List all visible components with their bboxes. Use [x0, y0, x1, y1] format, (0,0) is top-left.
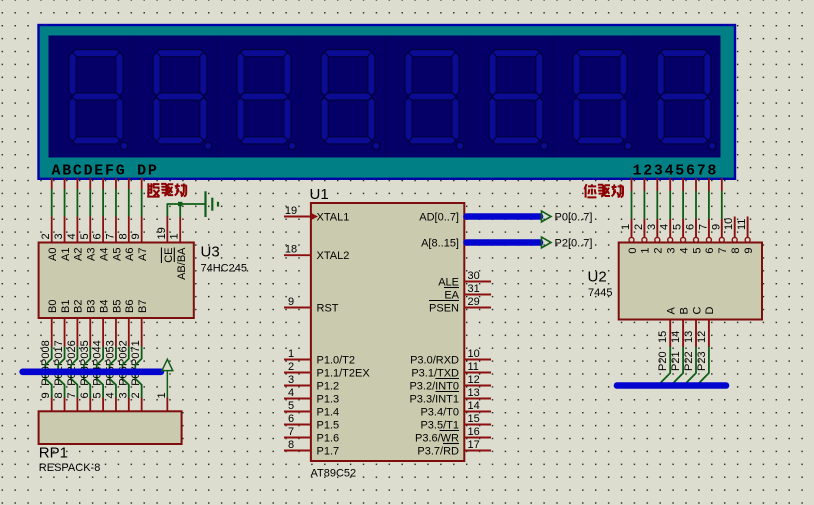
svg-text:5: 5 — [288, 400, 294, 412]
svg-text:C: C — [691, 307, 703, 315]
svg-text:P3.7/RD: P3.7/RD — [417, 446, 459, 458]
display digit pin 6 stub — [695, 178, 697, 191]
display digit pin 8 stub — [721, 178, 723, 191]
svg-text:A5: A5 — [111, 248, 123, 261]
svg-text:P017: P017 — [53, 340, 65, 366]
wire display E to U3 A4 — [102, 189, 104, 217]
svg-text:P3.2/INT0: P3.2/INT0 — [409, 381, 459, 393]
bus wire P0[0..7] from U1 — [467, 213, 541, 220]
U3 pin 3 stub — [64, 217, 66, 243]
svg-text:B1: B1 — [60, 300, 72, 313]
display digit pin 3 stub — [656, 178, 658, 191]
svg-text:A1: A1 — [60, 248, 72, 261]
svg-text:P3.1/TXD: P3.1/TXD — [411, 368, 459, 380]
svg-text:2: 2 — [633, 224, 645, 230]
wire display digit 4 to U2 out 3 — [669, 191, 671, 219]
svg-text:P1.4: P1.4 — [317, 407, 340, 419]
svg-text:14: 14 — [670, 331, 682, 343]
svg-text:7: 7 — [697, 224, 709, 230]
svg-text:9: 9 — [40, 392, 52, 398]
U1 pin 2 line (P1.1/T2EX) — [284, 372, 311, 374]
svg-text:6: 6 — [92, 233, 104, 239]
wire display D to U3 A7 — [141, 189, 143, 217]
svg-text:P3.6/WR: P3.6/WR — [415, 433, 459, 445]
U2 pin 9 stub with bubble — [721, 219, 723, 237]
display digit 8 — [657, 50, 716, 150]
svg-text:6: 6 — [685, 224, 697, 230]
buffer U3 74HC245 body — [39, 243, 194, 319]
wire B5 to bus and to RP1 (jog) — [110, 347, 116, 399]
junction node at AB/BA tap — [178, 202, 182, 206]
svg-text:P0[0..7]: P0[0..7] — [555, 212, 593, 224]
svg-text:1: 1 — [620, 224, 632, 230]
svg-text:P1.7: P1.7 — [317, 446, 340, 458]
svg-text:1: 1 — [169, 233, 181, 239]
svg-text:P3.5/T1: P3.5/T1 — [420, 420, 459, 432]
U3 pin 9 stub — [141, 217, 143, 243]
wire display digit 6 to U2 out 5 — [695, 191, 697, 219]
wire CE to ground (horizontal) — [167, 203, 206, 205]
svg-text:AD[0..7]: AD[0..7] — [419, 212, 459, 224]
RP1 pin 9 stub — [51, 398, 53, 412]
svg-text:1: 1 — [288, 348, 294, 360]
svg-text:3: 3 — [666, 248, 678, 254]
wire B4 to bus and to RP1 (jog) — [97, 347, 103, 399]
svg-text:4: 4 — [678, 248, 690, 254]
U3 pin 5 bottom stub B5 — [115, 318, 117, 347]
U3 pin 1 bottom stub B1 — [64, 318, 66, 347]
svg-text:3: 3 — [646, 224, 658, 230]
U1 pin 13 line (P3.3/INT1) — [464, 398, 491, 400]
U3 pin 3 bottom stub B3 — [89, 318, 91, 347]
svg-text:P026: P026 — [66, 340, 78, 366]
svg-text:P1.1/T2EX: P1.1/T2EX — [317, 368, 371, 380]
svg-text:A6: A6 — [124, 248, 136, 261]
U1 pin 7 line (P1.6) — [284, 437, 311, 439]
overline for WR — [440, 430, 460, 432]
display digit 6 — [489, 50, 548, 150]
XTAL1 clock arrow — [312, 213, 319, 220]
svg-text:PSEN: PSEN — [429, 303, 459, 315]
wire U3 AB/BA up — [179, 204, 181, 217]
svg-text:A4: A4 — [98, 248, 110, 261]
svg-text:8: 8 — [117, 233, 129, 239]
svg-text:5: 5 — [92, 392, 104, 398]
display pin D stub — [141, 178, 143, 189]
U2 pin 14 bottom stub — [682, 320, 684, 347]
svg-text:P1.3: P1.3 — [317, 394, 340, 406]
wire U2 C to bus P22 — [684, 347, 696, 386]
svg-text:4: 4 — [288, 387, 294, 399]
svg-text:P20: P20 — [657, 351, 669, 371]
wire display digit 5 to U2 out 4 — [682, 191, 684, 219]
svg-text:ALE: ALE — [438, 277, 459, 289]
svg-text:30: 30 — [468, 270, 480, 282]
svg-text:31: 31 — [468, 283, 480, 295]
RP1 pin 1 stub — [166, 398, 168, 412]
U3 pin 6 stub — [102, 217, 104, 243]
RP1 pin 2 stub — [141, 398, 143, 412]
U1 pin 5 line (P1.4) — [284, 411, 311, 413]
display digit 2 — [153, 50, 212, 150]
svg-text:U1: U1 — [310, 186, 329, 203]
display cell divider 3 — [300, 36, 302, 158]
U1 pin 15 line (P3.5/T1) — [464, 424, 491, 426]
svg-text:P1.5: P1.5 — [317, 420, 340, 432]
overline for RD — [443, 443, 459, 445]
display digit pin 4 stub — [669, 178, 671, 191]
svg-text:7: 7 — [288, 426, 294, 438]
wire display C to U3 A2 — [76, 189, 78, 217]
svg-text:15: 15 — [657, 331, 669, 343]
svg-text:B5: B5 — [111, 300, 123, 313]
U3 pin 19 stub (CE) — [166, 217, 168, 243]
U2 pin 5 stub with bubble — [682, 219, 684, 237]
wire display A to U3 A0 — [51, 189, 53, 217]
bus arrowhead P2[0..7] — [542, 237, 552, 248]
wire U3 CE up — [166, 204, 168, 217]
wire display digit 1 to U2 out 0 — [631, 191, 633, 219]
svg-text:B6: B6 — [124, 300, 136, 313]
svg-text:9: 9 — [288, 296, 294, 308]
svg-text:5: 5 — [79, 233, 91, 239]
svg-text:AT89C52: AT89C52 — [311, 468, 357, 480]
label 段驱动 (segment drive), hand-drawn glyphs — [147, 183, 159, 197]
U1 pin 16 line (P3.6/WR) — [464, 437, 491, 439]
overline for INT1 — [436, 391, 460, 393]
U3 pin 4 bottom stub B4 — [102, 318, 104, 347]
display pin A stub — [51, 178, 53, 189]
display digit 5 — [405, 50, 464, 150]
U2 pin 13 bottom stub — [695, 320, 697, 347]
svg-text:B4: B4 — [98, 300, 110, 313]
svg-text:U3: U3 — [201, 243, 220, 260]
svg-text:A[8..15]: A[8..15] — [421, 238, 459, 250]
svg-text:4: 4 — [104, 392, 116, 398]
svg-text:P053: P053 — [104, 340, 116, 366]
display pin F stub — [115, 178, 117, 189]
U2 pin 11 stub with bubble — [747, 217, 749, 238]
U1 pin 6 line (P1.5) — [284, 424, 311, 426]
wire B7 to bus and to RP1 (jog) — [135, 347, 141, 399]
display digit 3 — [237, 50, 296, 150]
svg-text:7: 7 — [66, 392, 78, 398]
svg-text:P1.0/T2: P1.0/T2 — [317, 355, 356, 367]
svg-text:RST: RST — [317, 303, 339, 315]
wire B3 to bus and to RP1 (jog) — [84, 347, 90, 399]
svg-text:3: 3 — [288, 374, 294, 386]
svg-text:7: 7 — [717, 248, 729, 254]
svg-text:2: 2 — [130, 392, 142, 398]
svg-text:P3.4/T0: P3.4/T0 — [420, 407, 459, 419]
svg-text:19: 19 — [285, 205, 297, 217]
display DS1 7SEG-MPX8 body — [39, 25, 736, 179]
wire B0 to bus and to RP1 (jog) — [45, 347, 51, 399]
U1 pin 14 line (P3.4/T0) — [464, 411, 491, 413]
bus right horizontal — [617, 382, 726, 389]
U2 pin 15 bottom stub — [669, 320, 671, 347]
display cell divider 5 — [468, 36, 470, 158]
svg-text:P21: P21 — [670, 351, 682, 371]
display pin E stub — [102, 178, 104, 189]
RP1 pin 3 stub — [128, 398, 130, 412]
svg-text:2: 2 — [288, 361, 294, 373]
svg-text:11: 11 — [736, 219, 748, 230]
svg-text:9: 9 — [710, 224, 722, 230]
U2 pin 1 stub with bubble — [631, 219, 633, 237]
svg-text:1: 1 — [156, 392, 168, 398]
svg-text:P23: P23 — [696, 351, 708, 371]
U2 pin 3 stub with bubble — [656, 219, 658, 237]
display pin C stub — [76, 178, 78, 189]
wire display digit 3 to U2 out 2 — [656, 191, 658, 219]
svg-text:P071: P071 — [130, 340, 142, 366]
svg-text:8: 8 — [53, 392, 65, 398]
svg-text:U2: U2 — [588, 269, 607, 286]
display digit pin 7 stub — [708, 178, 710, 191]
svg-text:12: 12 — [468, 374, 480, 386]
svg-text:P062: P062 — [117, 340, 129, 366]
svg-text:13: 13 — [468, 387, 480, 399]
overline for EA — [444, 287, 459, 289]
U1 pin 3 line (P1.2) — [284, 385, 311, 387]
overline for PSEN — [429, 300, 459, 302]
svg-text:P035: P035 — [79, 340, 91, 366]
U2 pin 12 bottom stub — [708, 320, 710, 347]
svg-text:B2: B2 — [73, 300, 85, 313]
RP1 pin 6 stub — [89, 398, 91, 412]
display digit 7 — [573, 50, 632, 150]
wire display digit 7 to U2 out 6 — [708, 191, 710, 219]
svg-text:6: 6 — [704, 248, 716, 254]
svg-text:P3.0/RXD: P3.0/RXD — [410, 355, 459, 367]
svg-text:P1.2: P1.2 — [317, 381, 340, 393]
svg-text:9: 9 — [130, 233, 142, 239]
wire display digit 2 to U2 out 1 — [643, 191, 645, 219]
U2 pin 6 stub with bubble — [695, 219, 697, 237]
wire display G to U3 A6 — [128, 189, 130, 217]
decoder U2 7445 body — [619, 243, 762, 320]
svg-text:14: 14 — [468, 400, 480, 412]
bus wire P2[0..7] from U1 — [467, 239, 541, 246]
mcu U1 AT89C52 body — [311, 203, 464, 461]
svg-text:A0: A0 — [47, 248, 59, 261]
svg-text:RP1: RP1 — [39, 445, 68, 462]
U1 pin 8 line (P1.7) — [284, 450, 311, 452]
display cell divider 1 — [132, 36, 134, 158]
wire display digit 8 to U2 out 7 — [721, 191, 723, 219]
label 位驱动 (digit drive), hand-drawn glyphs — [584, 184, 596, 197]
svg-text:2: 2 — [40, 233, 52, 239]
U1 pin 30 line (ALE) — [464, 281, 491, 283]
svg-text:P008: P008 — [40, 340, 52, 366]
U1 pin 19 line (XTAL1) — [284, 216, 311, 218]
U1 pin 17 line (P3.7/RD) — [464, 450, 491, 452]
display digit pin 2 stub — [643, 178, 645, 191]
svg-text:19: 19 — [156, 227, 168, 239]
wire B6 to bus and to RP1 (jog) — [122, 347, 128, 399]
svg-text:B: B — [678, 307, 690, 314]
U3 pin 1 stub (AB/BA) — [179, 217, 181, 243]
svg-text:15: 15 — [468, 413, 480, 425]
svg-text:XTAL1: XTAL1 — [317, 212, 350, 224]
svg-text:4: 4 — [659, 224, 671, 230]
ground symbol — [206, 191, 219, 217]
display cell divider 2 — [216, 36, 218, 158]
svg-text:CE: CE — [163, 248, 175, 263]
svg-text:ABCDEFG DP: ABCDEFG DP — [52, 162, 159, 179]
svg-text:8: 8 — [730, 248, 742, 254]
svg-text:P3.3/INT1: P3.3/INT1 — [409, 394, 459, 406]
U3 pin 6 bottom stub B6 — [128, 318, 130, 347]
svg-text:2: 2 — [653, 248, 665, 254]
svg-text:6: 6 — [288, 413, 294, 425]
U3 pin 2 stub — [51, 217, 53, 243]
resistor pack RP1 body — [39, 411, 182, 444]
svg-text:5: 5 — [672, 224, 684, 230]
svg-text:A3: A3 — [86, 248, 98, 261]
wire B1 to bus and to RP1 (jog) — [58, 347, 64, 399]
svg-text:16: 16 — [468, 426, 480, 438]
svg-text:4: 4 — [66, 233, 78, 239]
svg-text:6: 6 — [79, 392, 91, 398]
svg-text:B3: B3 — [86, 300, 98, 313]
U1 pin 9 line (RST) — [284, 307, 311, 309]
svg-text:EA: EA — [444, 290, 459, 302]
svg-text:3: 3 — [117, 392, 129, 398]
U1 pin 12 line (P3.2/INT0) — [464, 385, 491, 387]
U1 pin 10 line (P3.0/RXD) — [464, 359, 491, 361]
bus arrowhead P0[0..7] — [542, 211, 552, 222]
U2 pin 4 stub with bubble — [669, 219, 671, 237]
svg-text:B0: B0 — [47, 300, 59, 313]
svg-text:5: 5 — [691, 248, 703, 254]
svg-text:7: 7 — [104, 233, 116, 239]
svg-text:12345678: 12345678 — [633, 162, 719, 179]
U1 pin 4 line (P1.3) — [284, 398, 311, 400]
U2 pin 2 stub with bubble — [643, 219, 645, 237]
svg-text:3: 3 — [53, 233, 65, 239]
svg-text:A: A — [666, 307, 678, 315]
display digit 1 — [69, 50, 128, 150]
svg-text:10: 10 — [468, 348, 480, 360]
svg-text:0: 0 — [627, 248, 639, 254]
RP1 pin 7 stub — [76, 398, 78, 412]
RP1 pin 8 stub — [64, 398, 66, 412]
wire display B to U3 A1 — [64, 189, 66, 217]
wire display D to U3 A3 — [89, 189, 91, 217]
svg-text:7445: 7445 — [588, 287, 612, 299]
svg-text:29: 29 — [468, 296, 480, 308]
U2 pin 7 stub with bubble — [708, 219, 710, 237]
U3 pin 4 stub — [76, 217, 78, 243]
wire U2 A to bus P20 — [658, 347, 670, 386]
U2 pin 10 stub with bubble — [734, 217, 736, 238]
wire U2 D to bus P23 — [697, 347, 709, 386]
U3 pin 2 bottom stub B2 — [76, 318, 78, 347]
wire B2 to bus and to RP1 (jog) — [71, 347, 77, 399]
U3 pin 7 stub — [115, 217, 117, 243]
display digit pin 1 stub — [631, 178, 633, 191]
svg-text:P22: P22 — [683, 351, 695, 371]
svg-text:18: 18 — [285, 244, 297, 256]
U1 pin 1 line (P1.0/T2) — [284, 359, 311, 361]
wire display F to U3 A5 — [115, 189, 117, 217]
svg-text:1: 1 — [640, 248, 652, 254]
svg-text:9: 9 — [743, 248, 755, 254]
U3 pin 0 bottom stub B0 — [51, 318, 53, 347]
svg-text:P1.6: P1.6 — [317, 433, 340, 445]
power symbol (vcc arrow) for RP1 pin 1 — [162, 359, 173, 398]
svg-text:B7: B7 — [137, 300, 149, 313]
display pin D stub — [89, 178, 91, 189]
U1 pin 18 line (XTAL2) — [284, 254, 311, 256]
svg-text:RESPACK-8: RESPACK-8 — [39, 462, 101, 474]
U3 pin 5 stub — [89, 217, 91, 243]
display cell divider 6 — [552, 36, 554, 158]
RP1 pin 4 stub — [115, 398, 117, 412]
display pin B stub — [64, 178, 66, 189]
svg-text:A7: A7 — [137, 248, 149, 261]
svg-text:XTAL2: XTAL2 — [317, 250, 350, 262]
svg-text:11: 11 — [468, 361, 479, 373]
svg-text:74HC245: 74HC245 — [201, 263, 247, 275]
display digit pin 5 stub — [682, 178, 684, 191]
U1 pin 31 line (EA) — [464, 294, 491, 296]
svg-text:A2: A2 — [73, 248, 85, 261]
U3 pin 7 bottom stub B7 — [141, 318, 143, 347]
svg-text:AB/BA: AB/BA — [176, 247, 188, 280]
display cell divider 4 — [384, 36, 386, 158]
display pin G stub — [128, 178, 130, 189]
wire U2 B to bus P21 — [671, 347, 683, 386]
svg-text:P044: P044 — [92, 340, 104, 366]
U3 pin 8 stub — [128, 217, 130, 243]
svg-text:17: 17 — [468, 439, 480, 451]
RP1 pin 5 stub — [102, 398, 104, 412]
overline for INT0 — [436, 378, 460, 380]
svg-text:D: D — [704, 307, 716, 315]
svg-text:P2[0..7]: P2[0..7] — [555, 238, 593, 250]
display digit 4 — [321, 50, 380, 150]
display cell divider 7 — [636, 36, 638, 158]
svg-text:10: 10 — [723, 218, 735, 230]
svg-text:12: 12 — [696, 331, 708, 343]
bus left horizontal — [23, 368, 161, 375]
U1 pin 29 line (PSEN) — [464, 307, 491, 309]
svg-text:13: 13 — [683, 331, 695, 343]
svg-text:8: 8 — [288, 439, 294, 451]
U1 pin 11 line (P3.1/TXD) — [464, 372, 491, 374]
